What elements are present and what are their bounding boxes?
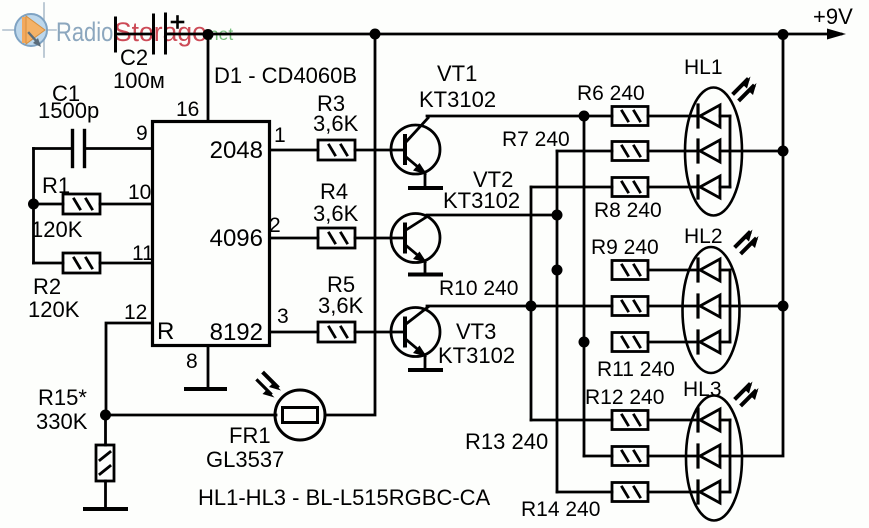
LED HL1 chip2 <box>698 140 730 162</box>
wire right +9V rail vertical <box>730 34 783 456</box>
ground under R15 <box>85 507 126 511</box>
VT1 labels <box>419 61 496 112</box>
wire left rail <box>32 149 35 264</box>
svg-text:R7 240: R7 240 <box>502 128 570 151</box>
wire pin 16 to rail <box>207 34 210 122</box>
wire FR1 row <box>106 414 277 417</box>
svg-text:3,6K: 3,6K <box>313 111 359 136</box>
node junction bus VT1 / R11 row <box>579 337 590 348</box>
R4 labels <box>313 179 359 226</box>
LED module HL2 envelope <box>683 247 740 373</box>
LED module HL3 envelope <box>686 396 742 521</box>
svg-text:HL3: HL3 <box>683 378 722 401</box>
svg-text:VT3: VT3 <box>456 319 496 344</box>
node junction pin12 / R15 / FR1 <box>100 410 111 421</box>
HL2 emission arrow 1 <box>736 230 753 247</box>
svg-text:VT1: VT1 <box>437 61 477 86</box>
node junction top rail / FR1 bus <box>370 29 381 40</box>
capacitor C2 <box>154 14 184 53</box>
resistor R10 <box>612 297 648 316</box>
wire R11 to HL2 led3 <box>648 341 698 344</box>
LED HL3 chip1 <box>698 409 730 431</box>
svg-text:1: 1 <box>274 124 286 147</box>
LED HL2 chip3 <box>698 331 730 353</box>
HL1 emission arrow 1 <box>734 77 751 94</box>
svg-text:R13 240: R13 240 <box>465 429 548 454</box>
svg-text:+9V: +9V <box>813 4 853 29</box>
svg-text:R14 240: R14 240 <box>521 498 600 521</box>
resistor R8 <box>612 178 648 197</box>
LED module HL1 envelope <box>685 88 742 216</box>
node junction left rail / R1 <box>28 199 39 210</box>
HL3 emission arrow 1 <box>736 382 753 399</box>
wire R9 to HL2 led1 <box>648 269 698 272</box>
C1 label <box>38 81 99 123</box>
wire R6 to HL1 led1 <box>648 115 698 118</box>
wire pin 8 <box>207 346 210 390</box>
svg-text:120K: 120K <box>28 297 80 322</box>
HL1 emission arrow 2 <box>740 83 757 100</box>
node junction rail / HL1 <box>778 146 789 157</box>
wire top supply rail left of C2 <box>116 33 154 36</box>
wire R7 row corner <box>557 150 612 153</box>
svg-text:2: 2 <box>269 214 281 237</box>
ground under pin 8 <box>186 387 225 391</box>
R2 labels <box>28 274 80 322</box>
wire bus VT3 vertical <box>530 187 533 420</box>
FR1 light arrow 1 <box>264 374 281 391</box>
LED HL1 chip3 <box>698 176 730 198</box>
wire R8 to HL1 led3 <box>648 186 698 189</box>
resistor R12 <box>612 411 648 430</box>
IC U1 CD4060B body <box>153 122 270 346</box>
svg-text:3,6K: 3,6K <box>313 201 359 226</box>
resistor R15 <box>96 445 114 481</box>
wire HL3 anode join <box>729 420 732 492</box>
svg-text:120K: 120K <box>31 217 83 242</box>
svg-text:HL2: HL2 <box>684 225 723 248</box>
VT2 labels <box>443 167 520 213</box>
wire R2 row pin 11 <box>34 262 64 265</box>
svg-text:R10 240: R10 240 <box>439 277 518 300</box>
svg-text:HL1: HL1 <box>684 56 723 79</box>
ground under VT2 <box>410 273 441 277</box>
svg-text:4096: 4096 <box>210 225 263 252</box>
resistor R13 <box>612 447 648 466</box>
photoresistor FR1 <box>275 390 325 440</box>
ground under VT3 <box>410 368 441 372</box>
wire pin 1 row <box>270 149 319 152</box>
LED HL2 chip1 <box>698 259 730 281</box>
svg-text:100м: 100м <box>113 68 165 93</box>
svg-text:R2: R2 <box>33 274 61 299</box>
LED HL3 chip2 <box>698 445 730 467</box>
wire HL2 anode join <box>729 270 732 342</box>
wire R12 to HL3 led1 <box>648 419 698 422</box>
R5 labels <box>318 272 364 318</box>
svg-text:FR1: FR1 <box>229 423 271 448</box>
wire R12 row corner <box>531 419 612 422</box>
resistor R14 <box>612 483 648 502</box>
resistor R11 <box>612 333 648 352</box>
svg-text:8192: 8192 <box>210 319 263 346</box>
logo icon transistor circle <box>3 3 56 57</box>
wire pin 3 row <box>270 331 319 334</box>
resistor R4 <box>318 228 355 248</box>
resistor R2 <box>63 253 100 273</box>
capacitor C2 terminal bar <box>114 18 117 51</box>
capacitor C1 <box>71 131 74 167</box>
wire VT3 collector row to R10 <box>427 305 612 308</box>
wire R1 row pin 10 <box>34 203 64 206</box>
svg-text:GL3537: GL3537 <box>206 447 284 472</box>
FR1 labels <box>206 423 284 472</box>
wire R14 row corner <box>557 491 612 494</box>
LED HL2 chip2 <box>698 295 730 317</box>
svg-text:R15*: R15* <box>38 385 87 410</box>
wire R15 bottom <box>104 481 107 509</box>
HL2 emission arrow 2 <box>742 236 759 253</box>
wire R7 to HL1 led2 <box>648 150 698 153</box>
logo text RadioStorage.net <box>56 17 233 48</box>
svg-text:HL1-HL3 - BL-L515RGBC-CA: HL1-HL3 - BL-L515RGBC-CA <box>198 485 491 510</box>
resistor R9 <box>612 261 648 280</box>
svg-text:330K: 330K <box>36 409 88 434</box>
wire FR1 bus vertical <box>325 34 375 415</box>
transistor VT2 <box>391 214 440 274</box>
svg-text:3,6K: 3,6K <box>318 293 364 318</box>
svg-text:Radio: Radio <box>56 18 113 47</box>
wire VT2 collector row <box>427 214 557 217</box>
resistor R5 <box>318 322 355 342</box>
HL3 emission arrow 2 <box>742 388 759 405</box>
svg-text:3: 3 <box>277 305 289 328</box>
svg-text:R8 240: R8 240 <box>594 199 662 222</box>
wire R10 to HL2 led2 <box>648 305 698 308</box>
transistor VT3 <box>391 307 440 369</box>
wire HL1 anode join <box>729 116 732 187</box>
R3 labels <box>313 91 359 136</box>
svg-text:KT3102: KT3102 <box>438 343 515 368</box>
svg-text:Storage: Storage <box>114 17 207 47</box>
svg-text:KT3102: KT3102 <box>443 188 520 213</box>
svg-text:R1: R1 <box>42 173 70 198</box>
LED HL3 chip3 <box>698 481 730 503</box>
node junction bus VT3 / R10 row <box>526 301 537 312</box>
wire bus VT2 vertical <box>556 151 559 492</box>
resistor R3 <box>318 140 355 160</box>
+9V arrow head <box>827 29 846 40</box>
R15 labels <box>36 385 88 434</box>
svg-text:16: 16 <box>176 98 199 121</box>
node junction rail / HL2 <box>778 301 789 312</box>
svg-text:R11 240: R11 240 <box>597 358 675 381</box>
transistor VT1 <box>391 118 440 187</box>
wire R13 to HL3 led2 <box>648 455 698 458</box>
wire HL2 to rail <box>730 305 783 308</box>
wire pin 9 / C1 row <box>34 147 72 150</box>
svg-text:C2: C2 <box>120 45 148 70</box>
wire top supply rail <box>166 33 842 36</box>
FR1 light arrow 2 <box>258 381 275 398</box>
wire bus VT1 vertical <box>583 116 586 456</box>
svg-text:8: 8 <box>186 350 198 373</box>
ground under VT1 <box>410 186 441 190</box>
svg-text:1500p: 1500p <box>38 98 99 123</box>
node junction bus VT2 / R9 row <box>552 265 563 276</box>
wire R14 to HL3 led3 <box>648 491 698 494</box>
node junction C2/pin16 <box>203 29 214 40</box>
svg-text:R6 240: R6 240 <box>577 82 645 105</box>
svg-text:2048: 2048 <box>210 137 263 164</box>
svg-text:R: R <box>157 318 174 345</box>
resistor R6 <box>612 107 648 126</box>
svg-text:11: 11 <box>132 242 154 265</box>
node junction bus VT1 / R6 row <box>579 111 590 122</box>
wire R13 row corner <box>584 455 612 458</box>
resistor R1 <box>63 194 100 214</box>
R1 labels <box>31 173 83 242</box>
wire VT1 collector row <box>427 115 612 118</box>
node junction top rail / right rail <box>778 29 789 40</box>
wire HL1 to rail <box>730 150 783 153</box>
VT3 labels <box>438 319 515 368</box>
resistor R7 <box>612 142 648 161</box>
svg-text:9: 9 <box>136 122 148 145</box>
wire R15 top <box>104 415 107 445</box>
svg-text:R12 240: R12 240 <box>585 386 664 409</box>
svg-text:R9 240: R9 240 <box>591 236 659 259</box>
svg-text:12: 12 <box>124 301 147 324</box>
svg-text:10: 10 <box>128 181 151 204</box>
svg-text:KT3102: KT3102 <box>419 87 496 112</box>
svg-text:D1 - CD4060B: D1 - CD4060B <box>214 63 357 88</box>
LED HL1 chip1 <box>698 105 730 127</box>
node junction bus VT2 / collector <box>552 210 563 221</box>
wire R8 row corner <box>531 186 612 189</box>
C2 value label <box>113 45 165 93</box>
wire pin 2 row <box>270 237 319 240</box>
wire pin 12 <box>106 323 153 415</box>
